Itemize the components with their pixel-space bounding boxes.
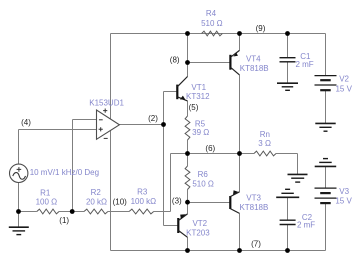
- svg-text:(4): (4): [21, 118, 31, 127]
- battery V3 15V: [315, 187, 353, 205]
- node dot 6 left: [185, 151, 190, 156]
- node dot 6 right: [237, 151, 242, 156]
- transistor VT3 KT818B: [230, 190, 268, 213]
- svg-text:V2: V2: [339, 75, 349, 84]
- wire VT2 collector/emitter leads: [187, 203, 189, 251]
- svg-text:(7): (7): [251, 240, 261, 249]
- node dot 8: [185, 60, 190, 65]
- svg-text:(6): (6): [205, 144, 215, 153]
- wire op-amp V+ riser: [110, 34, 112, 119]
- ground source: [9, 227, 29, 234]
- svg-text:(2): (2): [148, 114, 158, 123]
- svg-text:10 mV/1 kHz/0 Deg: 10 mV/1 kHz/0 Deg: [30, 168, 99, 177]
- wire node 8: [188, 34, 231, 77]
- resistor R5 39 Ohm: [185, 116, 190, 140]
- svg-text:2 mF: 2 mF: [295, 60, 313, 69]
- transistor VT1 KT312 npn: [177, 77, 210, 101]
- wire C1 stems: [287, 34, 289, 84]
- node dot rail R4 left: [185, 31, 190, 36]
- resistor R4 510 Ohm: [202, 31, 223, 36]
- svg-text:3 Ω: 3 Ω: [258, 139, 271, 148]
- svg-text:R6: R6: [198, 170, 209, 179]
- transistor VT2 KT203 pnp: [178, 214, 210, 238]
- svg-text:15 V: 15 V: [335, 84, 352, 93]
- svg-text:V3: V3: [339, 187, 349, 196]
- svg-text:KT203: KT203: [186, 228, 210, 237]
- resistor Rn 3 Ohm load: [254, 151, 276, 156]
- node dot rail VT2: [185, 248, 190, 253]
- svg-text:15 V: 15 V: [335, 196, 352, 205]
- svg-text:510 Ω: 510 Ω: [192, 180, 214, 189]
- resistor R6 510 Ohm: [185, 166, 190, 190]
- wire R6 stubs: [187, 154, 189, 203]
- wire V3 stems: [325, 166, 327, 250]
- wire op-amp output node 2: [119, 92, 178, 226]
- ground inverted V3 top: [315, 159, 337, 167]
- wire C2 stems: [287, 197, 289, 250]
- node dot 2: [161, 122, 166, 127]
- wire VT3 collector/emitter leads: [239, 154, 241, 251]
- ground C1: [277, 83, 298, 90]
- svg-text:(1): (1): [59, 216, 69, 225]
- svg-text:K153UD1: K153UD1: [89, 98, 124, 107]
- wire VT4 collector/emitter leads: [239, 34, 241, 154]
- op-amp U1 K153UD1: [89, 98, 124, 139]
- AC source V1: [10, 164, 100, 182]
- svg-text:510 Ω: 510 Ω: [201, 19, 223, 28]
- svg-text:R2: R2: [91, 188, 102, 197]
- svg-text:Rn: Rn: [260, 130, 270, 139]
- wire op-amp V- drop: [110, 131, 112, 251]
- svg-text:VT3: VT3: [246, 193, 261, 202]
- svg-text:VT2: VT2: [192, 219, 207, 228]
- ground inverted C2 top: [276, 189, 299, 197]
- wire node 4 source to op-amp: [19, 130, 97, 165]
- svg-text:KT312: KT312: [186, 92, 210, 101]
- svg-text:(9): (9): [256, 24, 266, 33]
- svg-text:R3: R3: [137, 188, 148, 197]
- wire V2 stems: [325, 34, 327, 124]
- node dot 3: [185, 200, 190, 205]
- capacitor C2 2 mF: [280, 213, 316, 230]
- node dot rail C1 top: [285, 31, 290, 36]
- svg-text:VT4: VT4: [246, 55, 261, 64]
- svg-text:(3): (3): [172, 197, 182, 206]
- svg-text:KT818B: KT818B: [239, 203, 268, 212]
- capacitor C1 2 mF: [280, 52, 314, 69]
- wire node 3 to VT3 base: [188, 202, 231, 204]
- wire node 6 output rail: [171, 154, 298, 175]
- node dot rail VT3: [237, 248, 242, 253]
- svg-text:(8): (8): [170, 55, 180, 64]
- resistor R2 20k: [84, 209, 108, 214]
- svg-text:39 Ω: 39 Ω: [192, 128, 209, 137]
- svg-text:100 kΩ: 100 kΩ: [131, 197, 157, 206]
- svg-text:20 kΩ: 20 kΩ: [86, 197, 107, 206]
- svg-text:100 Ω: 100 Ω: [36, 197, 58, 206]
- node dot 1: [70, 209, 75, 214]
- ground V2: [315, 123, 335, 131]
- node dot rail VT4 collector: [237, 31, 242, 36]
- svg-text:2 mF: 2 mF: [297, 221, 315, 230]
- resistor R1 100 Ohm: [37, 209, 59, 214]
- svg-text:(10): (10): [113, 198, 128, 207]
- transistor VT4 KT818B: [230, 50, 268, 75]
- battery V2 15V: [315, 75, 353, 94]
- resistor R3 100k: [129, 209, 154, 214]
- svg-text:KT818B: KT818B: [240, 64, 269, 73]
- wire top +15V rail: [111, 33, 326, 35]
- ground Rn: [288, 174, 308, 182]
- svg-text:(5): (5): [189, 103, 199, 112]
- wire bottom -15V rail: [111, 250, 326, 252]
- node dot rail C2: [285, 248, 290, 253]
- node dot source R1: [16, 209, 21, 214]
- wire feedback node1 to inverting input: [73, 120, 97, 212]
- svg-text:R1: R1: [40, 188, 51, 197]
- svg-text:R4: R4: [206, 9, 217, 18]
- svg-text:R5: R5: [195, 119, 206, 128]
- wire resistor row: [19, 154, 171, 212]
- wire source bottom to ground: [18, 183, 20, 228]
- wire VT1 emitter to R5 to node 6: [187, 101, 189, 154]
